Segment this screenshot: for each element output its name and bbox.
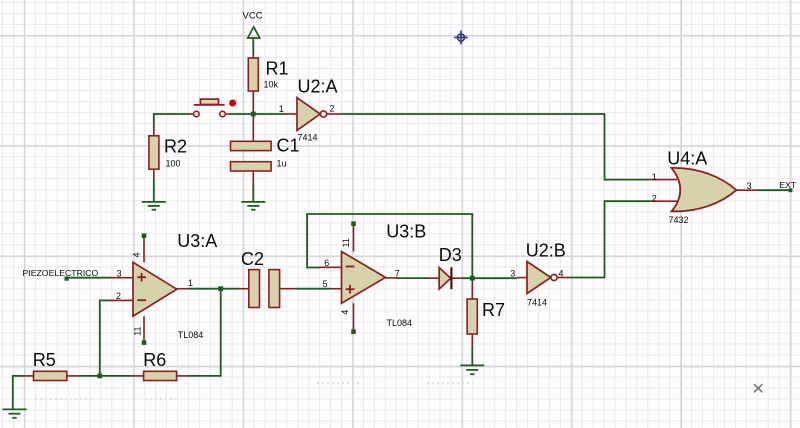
svg-text:7432: 7432 [669, 215, 689, 225]
op-amp U3:B [342, 221, 427, 328]
wire R2 to ground [153, 169, 155, 201]
svg-text:R1: R1 [266, 59, 289, 79]
U3:B pin 4 power pin [340, 303, 356, 334]
inverter U2:B [526, 240, 566, 307]
svg-text:VCC: VCC [243, 11, 263, 22]
svg-text:R6: R6 [143, 350, 166, 370]
wire OR gate pin1 lead [649, 172, 677, 182]
wire piezo to U3:A pin3 [67, 268, 134, 278]
wire U3:A pin2 lead [100, 291, 134, 301]
svg-text:4: 4 [132, 252, 142, 257]
wire corner down to R2 [153, 113, 155, 136]
resistor R2 [149, 136, 187, 169]
svg-text:2: 2 [330, 104, 335, 114]
resistor R7 [467, 299, 505, 334]
wire VCC to R1 [252, 38, 254, 59]
svg-text:R7: R7 [482, 300, 505, 320]
ground under R7 [460, 365, 484, 374]
svg-text:C1: C1 [277, 136, 300, 156]
terminal PIEZOELECTRICO [23, 268, 99, 281]
svg-text:TL084: TL084 [387, 318, 413, 328]
junction node D3/R7/feedback [470, 276, 475, 281]
resistor R1 [248, 58, 288, 91]
wire ghost dash row under U3:B [317, 382, 473, 384]
svg-text:7414: 7414 [298, 133, 318, 143]
wire U2:A output [327, 104, 650, 180]
op-amp U3:A [133, 231, 217, 340]
cursor X mark [754, 384, 762, 392]
resistor R5 [33, 350, 67, 381]
svg-text:2: 2 [652, 194, 657, 204]
wire R6 to feedback junction [177, 288, 221, 377]
wire OR output to EXT [736, 181, 789, 191]
svg-text:1: 1 [188, 278, 193, 288]
junction node feedback R6 [218, 286, 223, 291]
inverter U2:A pin 1 lead [279, 104, 298, 114]
U3:B pin 11 power pin [341, 221, 356, 251]
svg-text:R5: R5 [33, 350, 56, 370]
ground under R2 [142, 202, 166, 210]
svg-text:3: 3 [747, 181, 752, 191]
svg-text:3: 3 [510, 268, 515, 278]
inverter U2:A [297, 77, 338, 143]
svg-text:1: 1 [652, 172, 657, 182]
svg-text:U2:B: U2:B [526, 240, 566, 260]
svg-text:U2:A: U2:A [298, 77, 338, 97]
wire junction to R7 [471, 278, 473, 299]
wire D3 to U2:B [462, 277, 517, 279]
capacitor C2 [241, 249, 280, 308]
svg-text:6: 6 [324, 258, 329, 268]
U3:A pin 11 power pin [133, 316, 147, 345]
wire node to C1 [252, 114, 254, 142]
junction node at R1/C1 [251, 112, 256, 117]
svg-text:10k: 10k [264, 80, 279, 90]
svg-text:R2: R2 [164, 137, 187, 157]
svg-text:5: 5 [323, 279, 328, 289]
svg-text:U3:B: U3:B [386, 221, 426, 241]
svg-text:4: 4 [340, 310, 350, 315]
power VCC [243, 11, 263, 39]
svg-text:1: 1 [279, 104, 284, 114]
U3:A pin 4 power pin [132, 233, 147, 262]
push button switch [194, 99, 237, 117]
svg-text:EXT: EXT [779, 180, 797, 190]
svg-text:100: 100 [166, 159, 181, 169]
svg-text:U4:A: U4:A [667, 148, 707, 168]
svg-text:U3:A: U3:A [177, 231, 217, 251]
svg-text:11: 11 [133, 326, 143, 335]
junction node pin2 wire [97, 374, 102, 379]
svg-text:PIEZOELECTRICO: PIEZOELECTRICO [23, 268, 99, 278]
wire R5 left to ground [13, 375, 34, 409]
resistor R6 [143, 350, 176, 381]
svg-text:2: 2 [116, 291, 121, 301]
wire U2:B output to OR gate pin2 [557, 201, 649, 278]
wire feedback loop U3:B [307, 214, 472, 278]
wire R5 to R6 [67, 375, 144, 377]
wire R1 bottom pin to node [252, 91, 254, 114]
svg-text:3: 3 [117, 268, 122, 278]
wire C1 to ground [252, 171, 254, 202]
wire main top row left [154, 113, 194, 115]
wire U3:A output pin1 [177, 278, 250, 289]
svg-text:D3: D3 [439, 245, 462, 265]
diode D3 [428, 245, 463, 289]
wire U3:B output pin7 [386, 268, 429, 278]
OR gate U4:A [667, 148, 736, 225]
origin marker [454, 31, 468, 45]
wire switch to junction to U2:A [225, 113, 286, 115]
svg-text:1u: 1u [277, 159, 287, 169]
svg-text:C2: C2 [241, 249, 264, 269]
svg-text:7414: 7414 [527, 297, 547, 307]
wire ghost dash row under R5 R6 [35, 398, 174, 400]
ground under R5 [3, 409, 27, 417]
capacitor C1 [231, 136, 300, 172]
svg-text:11: 11 [341, 238, 351, 247]
wire OR gate pin2 lead [649, 194, 677, 204]
inverter U2:B pin3 lead [510, 268, 527, 278]
wire C2 to U3:B pin5 [280, 279, 342, 289]
wire pin2 down to R5/R6 row [99, 300, 101, 376]
svg-text:TL084: TL084 [178, 330, 204, 340]
terminal EXT [779, 180, 797, 192]
svg-text:7: 7 [395, 268, 400, 278]
ground under C1 [241, 202, 265, 210]
wire R7 to ground [471, 334, 473, 365]
